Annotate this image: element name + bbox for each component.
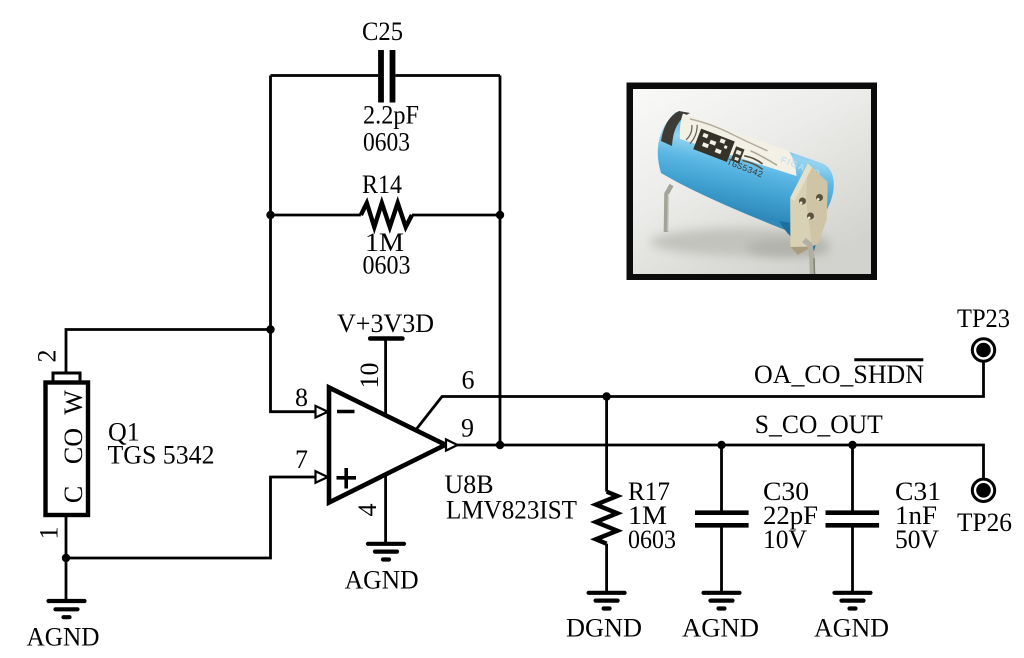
svg-text:1: 1: [35, 527, 64, 540]
photo label: [680, 114, 797, 177]
junction R14 left: [266, 211, 274, 219]
svg-text:AGND: AGND: [814, 614, 889, 643]
svg-text:10: 10: [355, 363, 384, 389]
svg-text:DGND: DGND: [566, 614, 642, 643]
op-amp U8B triangle: [329, 388, 446, 503]
photo end cap: [790, 164, 827, 256]
junction output / feedback: [496, 441, 504, 449]
op-amp pin 8 input arrow: [316, 406, 328, 418]
svg-text:6: 6: [462, 366, 475, 395]
svg-text:0603: 0603: [363, 251, 411, 280]
svg-text:9: 9: [461, 414, 474, 443]
photo label markings: [678, 117, 782, 184]
svg-text:7: 7: [295, 445, 308, 474]
svg-text:TP23: TP23: [957, 304, 1010, 333]
svg-text:4: 4: [353, 504, 382, 517]
test point TP23: [972, 339, 994, 361]
svg-text:V+3V3D: V+3V3D: [337, 309, 434, 338]
ground AGND (op-amp pin 4): [368, 544, 404, 560]
svg-text:AGND: AGND: [27, 623, 100, 652]
svg-text:LMV823IST: LMV823IST: [446, 496, 577, 525]
wire C25 top left segment: [271, 74, 379, 77]
sensor Q1 top tab: [53, 373, 80, 383]
wire node to op-amp pin 7: [66, 477, 316, 558]
ground DGND (R17): [589, 593, 625, 609]
junction R14 right: [496, 211, 504, 219]
wire op-amp pin 4 to ground: [384, 473, 387, 543]
junction C30 / S_CO_OUT: [717, 441, 725, 449]
svg-text:S_CO_OUT: S_CO_OUT: [755, 410, 883, 439]
wire R17 bottom lead to DGND: [605, 544, 608, 592]
power symbol V+3V3D: [370, 336, 402, 341]
wire R17 top lead: [605, 397, 608, 492]
svg-text:C: C: [59, 486, 88, 503]
test point TP26: [972, 479, 994, 501]
svg-text:0603: 0603: [363, 128, 410, 157]
svg-text:W: W: [59, 390, 88, 415]
op-amp minus sign: [337, 410, 355, 414]
wire C30 bottom lead to AGND: [720, 527, 723, 592]
photo sensor blue body: [658, 112, 834, 241]
photo background: [633, 89, 871, 274]
photo shadow under sensor: [650, 228, 830, 256]
capacitor C31 plates: [826, 513, 880, 526]
junction feedback / Q1 pin2: [266, 325, 274, 333]
junction R17 / SHDN line: [602, 392, 610, 400]
wire Q1 pin2 to feedback node: [66, 330, 271, 375]
wire Q1 pin1 to node: [65, 515, 68, 559]
svg-text:50V: 50V: [895, 525, 939, 554]
svg-text:10V: 10V: [763, 525, 807, 554]
photo dark gap under end cap: [779, 221, 820, 251]
svg-text:R14: R14: [362, 170, 402, 199]
op-amp output arrow: [446, 439, 458, 450]
wire C25 top right segment: [396, 74, 501, 77]
photo left pin: [666, 185, 672, 232]
ground AGND (C30): [704, 593, 740, 609]
wire op-amp pin 10 to power: [384, 339, 387, 416]
capacitor C25 plates: [381, 50, 393, 103]
ground AGND (C31): [835, 593, 871, 609]
wire R14 left lead: [271, 214, 361, 217]
svg-text:TGS 5342: TGS 5342: [108, 441, 215, 470]
wire pin 6 diagonal and OA_CO_SHDN run: [417, 362, 984, 429]
svg-text:2.2pF: 2.2pF: [363, 101, 419, 130]
svg-text:8: 8: [295, 383, 308, 412]
junction C31 / S_CO_OUT: [848, 441, 856, 449]
wire R14 right lead: [412, 214, 500, 217]
wire node to AGND: [65, 558, 68, 600]
capacitor C30 plates: [695, 513, 749, 526]
op-amp plus sign: [337, 468, 357, 489]
photo frame: [627, 83, 878, 281]
svg-text:AGND: AGND: [682, 614, 759, 643]
svg-text:TP26: TP26: [957, 508, 1012, 537]
sensor Q1 body: [46, 383, 89, 516]
photo left end dark cap: [661, 111, 690, 146]
svg-text:OA_CO_SHDN: OA_CO_SHDN: [754, 360, 924, 389]
wire C30 top lead: [720, 445, 723, 511]
op-amp pin 7 input arrow: [316, 471, 328, 483]
svg-text:2: 2: [33, 350, 62, 363]
overline over SHDN: [854, 358, 923, 361]
photo end cap holes: [799, 194, 823, 220]
resistor R14 zigzag: [361, 203, 412, 227]
wire C31 top lead: [851, 445, 854, 511]
wire right feedback vertical: [499, 76, 502, 446]
ground AGND (Q1): [49, 601, 85, 617]
junction Q1 pin1 / AGND: [62, 554, 70, 562]
svg-text:AGND: AGND: [345, 566, 419, 595]
wire left feedback vertical to pin 8: [271, 76, 317, 412]
svg-text:0603: 0603: [628, 525, 676, 554]
photo right pin: [804, 240, 813, 274]
svg-text:C25: C25: [362, 17, 403, 46]
resistor R17 zigzag: [596, 492, 617, 544]
wire pin 9 output S_CO_OUT run: [457, 445, 984, 479]
svg-text:CO: CO: [59, 428, 88, 464]
wire C31 bottom lead to AGND: [851, 527, 854, 592]
